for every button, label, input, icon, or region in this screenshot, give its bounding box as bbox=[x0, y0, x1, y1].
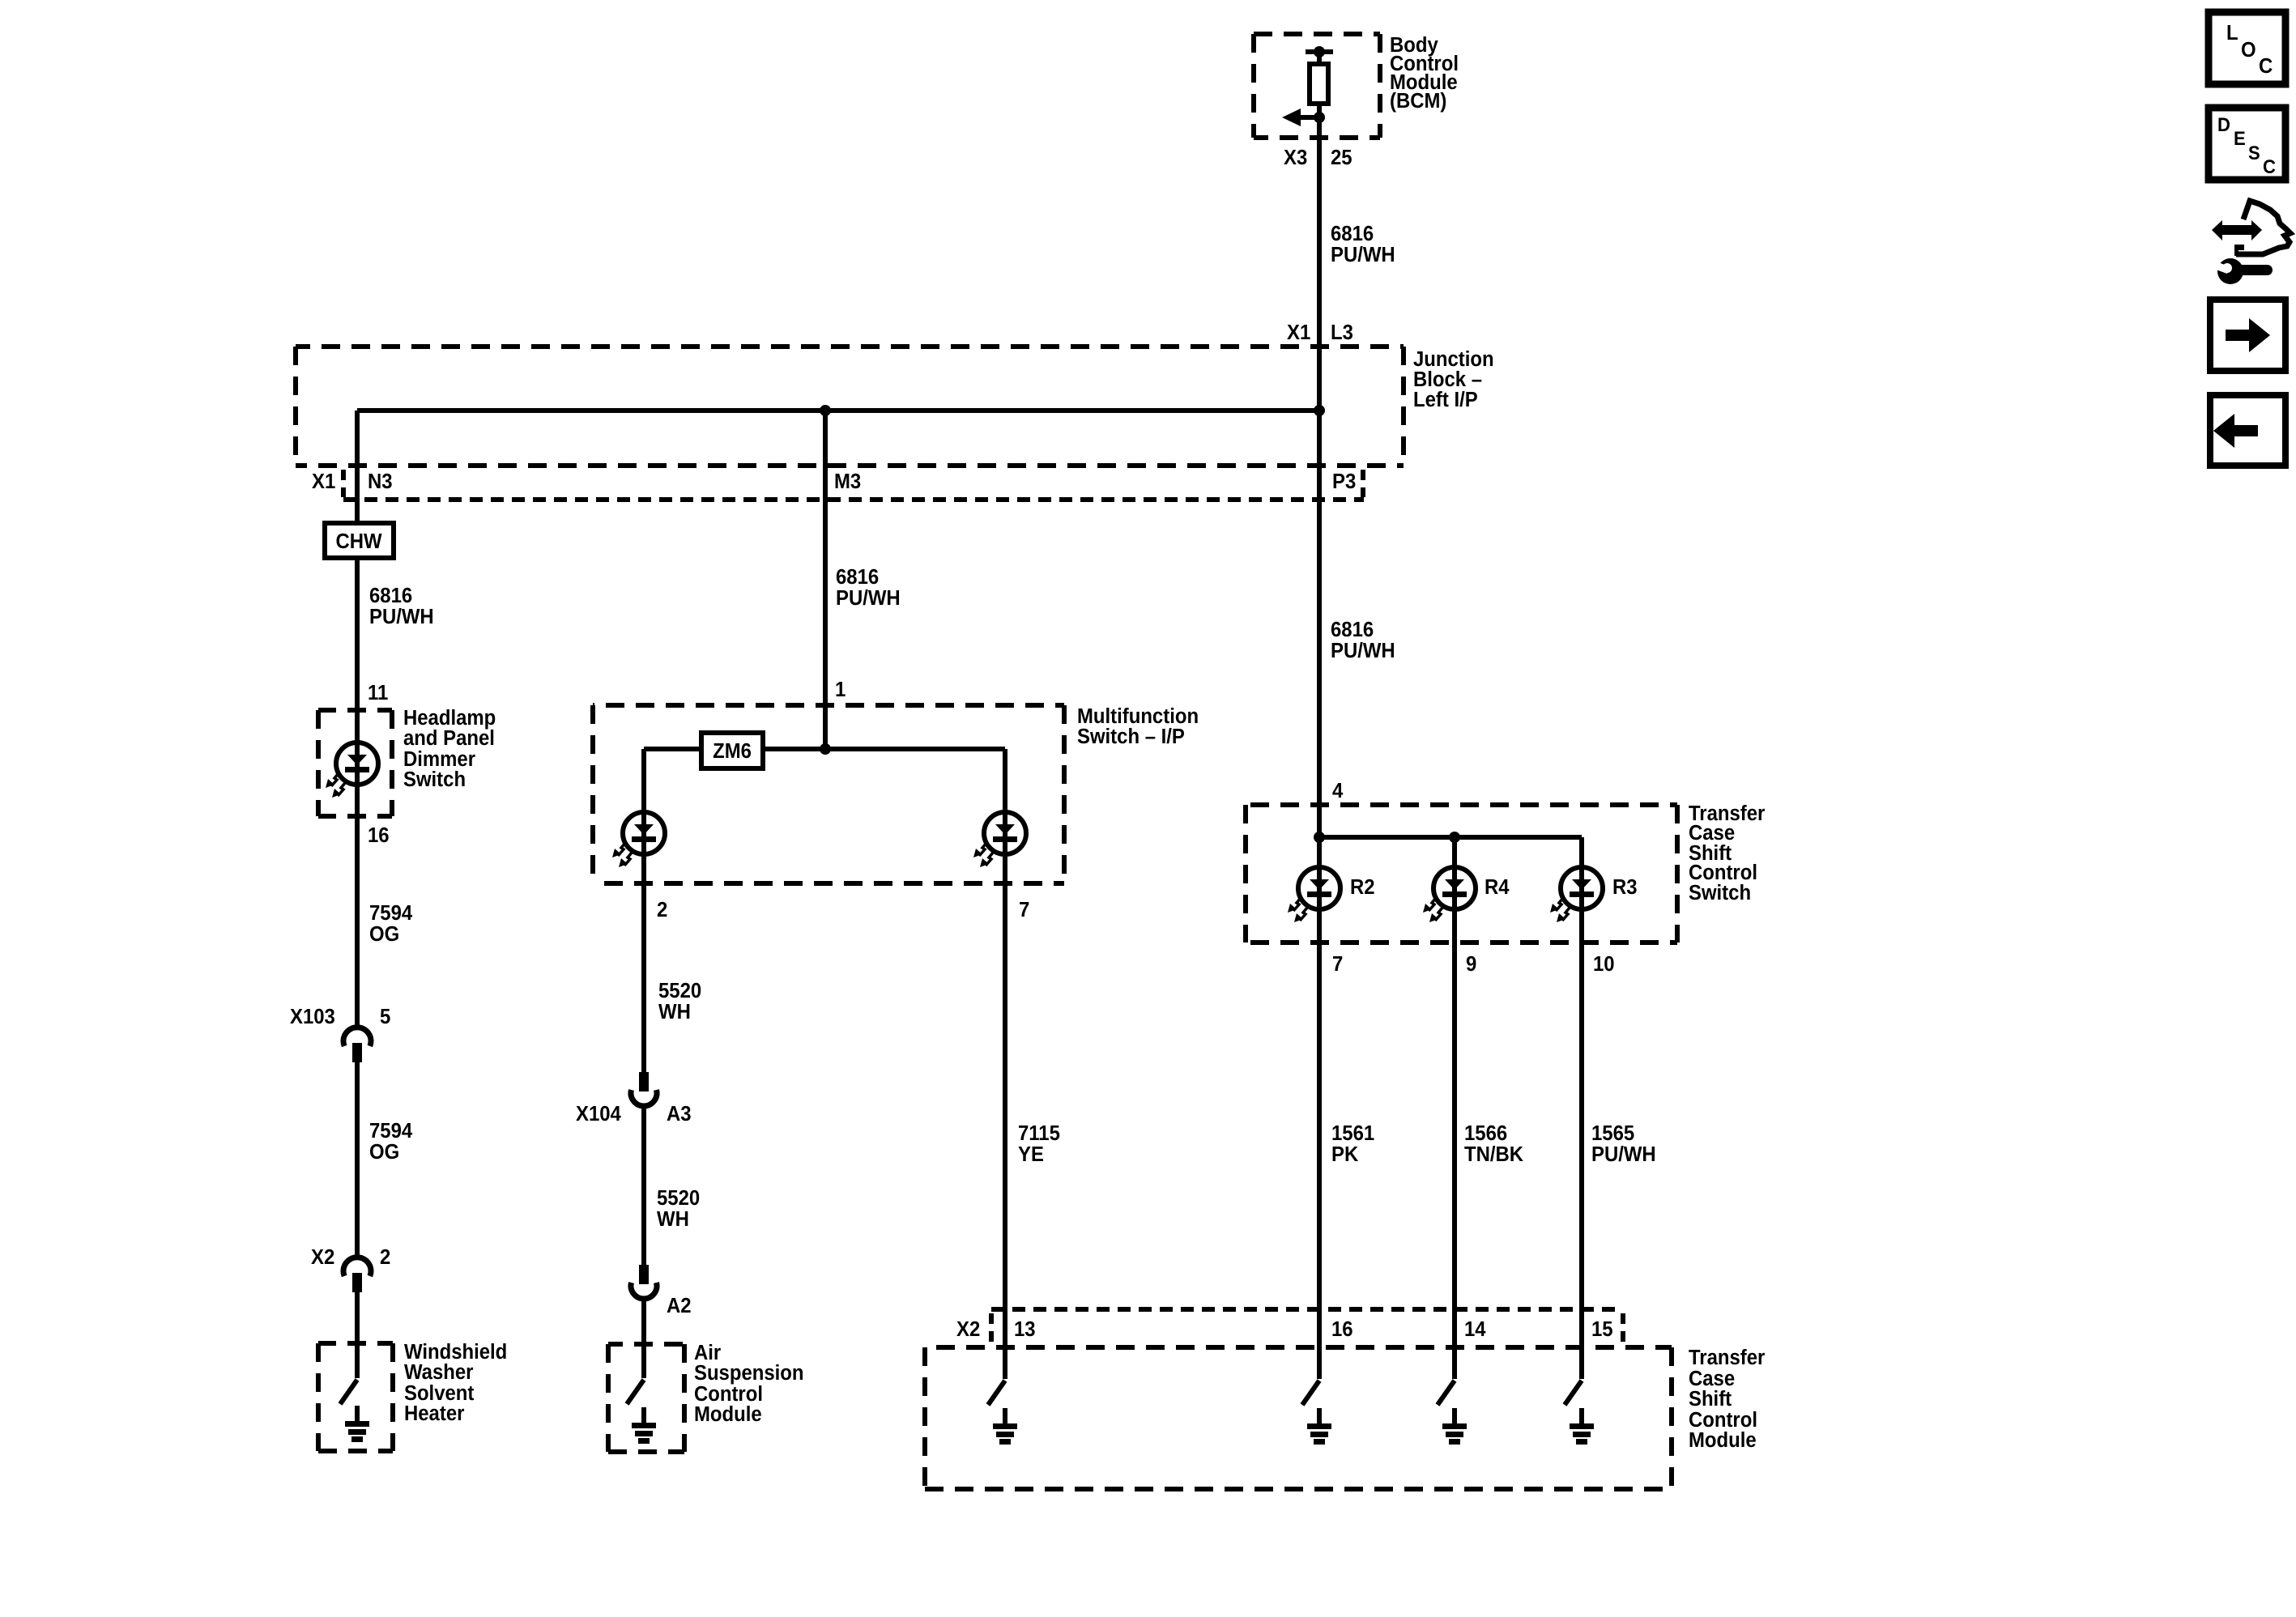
svg-text:PU/WH: PU/WH bbox=[1331, 639, 1395, 662]
svg-text:X1: X1 bbox=[1287, 321, 1310, 344]
svg-text:X3: X3 bbox=[1284, 146, 1307, 169]
Headlamp and Panel Dimmer Switch dashed box bbox=[318, 710, 392, 816]
wire label 6816 PU/WH (left) bbox=[369, 584, 434, 628]
svg-text:7594: 7594 bbox=[369, 901, 412, 925]
svg-text:OG: OG bbox=[369, 1140, 399, 1164]
svg-text:15: 15 bbox=[1591, 1317, 1613, 1341]
module pin14 switch blade bbox=[1438, 1381, 1455, 1405]
wire through dimmer switch bbox=[355, 710, 360, 816]
wire label 6816 PU/WH (right) bbox=[1331, 618, 1395, 662]
svg-text:R2: R2 bbox=[1350, 875, 1375, 899]
Junction Block name label bbox=[1413, 347, 1494, 411]
svg-text:Switch: Switch bbox=[1689, 881, 1751, 904]
wire: CHW to headlamp dimmer switch pin 11 (6816 PU/WH) bbox=[355, 558, 360, 710]
CHW option box bbox=[325, 523, 394, 558]
svg-text:11: 11 bbox=[368, 681, 388, 704]
Multifunction Switch name label bbox=[1077, 704, 1199, 748]
svg-text:S: S bbox=[2248, 142, 2260, 164]
svg-text:Transfer: Transfer bbox=[1689, 1346, 1766, 1369]
svg-text:Suspension: Suspension bbox=[694, 1361, 804, 1385]
Body Control Module (BCM) dashed box bbox=[1254, 34, 1380, 138]
ground (module pin 16) bbox=[1307, 1408, 1331, 1445]
junction dot R4 node bbox=[1449, 832, 1460, 843]
ZM6 option box bbox=[701, 733, 763, 768]
wire label 7594 OG (lower) bbox=[369, 1119, 412, 1164]
wire: multifunction pin 2 to X104 (5520 WH) bbox=[641, 883, 646, 1074]
wire: A2 to air suspension control module bbox=[641, 1300, 646, 1378]
Transfer Case Shift Control Switch dashed box bbox=[1246, 805, 1677, 943]
wire: X2 to windshield washer solvent heater bbox=[355, 1291, 360, 1378]
ground (module pin 14) bbox=[1442, 1408, 1467, 1445]
svg-text:L3: L3 bbox=[1331, 321, 1353, 344]
svg-text:5520: 5520 bbox=[657, 1186, 700, 1210]
multifunction internal bus wire bbox=[644, 749, 1005, 812]
connector X1 dotted line bbox=[343, 497, 1364, 502]
junction dot R2 node bbox=[1314, 832, 1325, 843]
air suspension switch blade bbox=[627, 1380, 644, 1404]
svg-text:WH: WH bbox=[658, 1000, 691, 1023]
svg-text:YE: YE bbox=[1018, 1143, 1044, 1166]
wire label 5520 WH (upper) bbox=[658, 979, 701, 1023]
svg-text:7: 7 bbox=[1019, 898, 1029, 921]
Air Suspension Control Module dashed box bbox=[608, 1344, 684, 1452]
icon: service/diagnostic (vehicle with arrow and wrench) bbox=[2212, 201, 2290, 284]
svg-text:2: 2 bbox=[657, 898, 667, 921]
wire: junction block P3 down to transfer case switch pin 4 (6816 PU/WH) bbox=[1317, 411, 1322, 837]
svg-text:PU/WH: PU/WH bbox=[836, 586, 901, 610]
junction block internal bus wire bbox=[357, 408, 1319, 413]
BCM output arrow (to left) bbox=[1282, 109, 1319, 126]
svg-text:1566: 1566 bbox=[1464, 1121, 1507, 1145]
svg-text:(BCM): (BCM) bbox=[1390, 89, 1446, 113]
svg-text:X2: X2 bbox=[311, 1245, 334, 1269]
svg-text:Switch – I/P: Switch – I/P bbox=[1077, 725, 1185, 748]
svg-text:10: 10 bbox=[1593, 952, 1615, 976]
svg-text:O: O bbox=[2241, 38, 2256, 62]
indicator LED lamp R4 bbox=[1423, 867, 1476, 922]
svg-text:X103: X103 bbox=[290, 1005, 335, 1028]
ground (windshield washer heater) bbox=[345, 1406, 369, 1442]
indicator LED lamp R3 bbox=[1550, 867, 1603, 922]
connector X2 dotted line (module) bbox=[991, 1307, 1623, 1312]
indicator LED lamp R2 bbox=[1288, 867, 1340, 922]
svg-text:6816: 6816 bbox=[1331, 618, 1374, 641]
Transfer Case Shift Control Switch name label bbox=[1689, 802, 1766, 904]
svg-text:PU/WH: PU/WH bbox=[369, 605, 434, 628]
BCM internal node bar with junction dot bbox=[1306, 46, 1333, 57]
Air Suspension Control Module name label bbox=[694, 1341, 804, 1426]
icon: previous page arrow box bbox=[2210, 395, 2285, 466]
svg-text:ZM6: ZM6 bbox=[713, 739, 752, 763]
wire through R3 lamp bbox=[1579, 837, 1584, 943]
svg-text:R4: R4 bbox=[1485, 875, 1510, 899]
Windshield Washer Solvent Heater name label bbox=[404, 1340, 507, 1425]
svg-text:C: C bbox=[2263, 155, 2276, 177]
svg-text:X104: X104 bbox=[576, 1102, 621, 1126]
wire: junction block M3 down to multifunction switch pin 1 (6816 PU/WH) bbox=[823, 411, 828, 749]
svg-text:9: 9 bbox=[1466, 952, 1476, 976]
indicator LED lamp (multifunction right) bbox=[973, 812, 1026, 867]
svg-text:PK: PK bbox=[1331, 1143, 1358, 1166]
heater switch blade bbox=[340, 1380, 357, 1404]
connector X1 left boundary dashes bbox=[341, 470, 346, 497]
svg-text:7594: 7594 bbox=[369, 1119, 412, 1143]
wire: junction block N3 down to CHW bbox=[355, 411, 360, 523]
svg-text:16: 16 bbox=[1331, 1317, 1353, 1341]
wire label 5520 WH (lower) bbox=[657, 1186, 700, 1231]
wire: X103 to X2 (7594 OG) bbox=[355, 1061, 360, 1257]
wire: X104 to A2 (5520 WH) bbox=[641, 1107, 646, 1266]
indicator LED lamp (dimmer switch illumination) bbox=[326, 743, 378, 798]
svg-text:Washer: Washer bbox=[404, 1360, 474, 1384]
svg-text:OG: OG bbox=[369, 922, 399, 946]
junction dot P3 branch bbox=[1314, 405, 1325, 416]
Transfer Case Shift Control Module dashed box bbox=[925, 1347, 1672, 1489]
in-line connector X104 pin A3 bbox=[631, 1072, 657, 1106]
svg-text:Module: Module bbox=[694, 1402, 762, 1426]
icon: LOC box bbox=[2209, 12, 2285, 84]
svg-text:A2: A2 bbox=[667, 1294, 692, 1317]
svg-text:5520: 5520 bbox=[658, 979, 701, 1002]
wire: multifunction pin 7 to module pin 13 (7115 YE) bbox=[1003, 883, 1007, 1379]
wire through left lamp bbox=[641, 812, 646, 883]
svg-text:X2: X2 bbox=[956, 1317, 980, 1341]
svg-text:CHW: CHW bbox=[335, 530, 382, 553]
pin label X3 25 bbox=[1284, 146, 1352, 169]
svg-text:WH: WH bbox=[657, 1207, 689, 1231]
svg-text:PU/WH: PU/WH bbox=[1591, 1143, 1656, 1166]
svg-text:1: 1 bbox=[835, 678, 846, 701]
svg-text:6816: 6816 bbox=[836, 565, 879, 589]
in-line connector pin A2 bbox=[631, 1265, 657, 1299]
svg-text:L: L bbox=[2226, 21, 2238, 45]
ground (module pin 13) bbox=[993, 1408, 1017, 1445]
resistor (BCM high-side driver) bbox=[1310, 52, 1328, 117]
wire label 1566 TN/BK bbox=[1464, 1121, 1523, 1166]
connector label X104 A3 bbox=[576, 1102, 692, 1126]
ground (air suspension control module) bbox=[632, 1407, 656, 1444]
svg-text:Left I/P: Left I/P bbox=[1413, 388, 1478, 411]
connector X2 left boundary dashes bbox=[989, 1313, 994, 1343]
svg-text:E: E bbox=[2234, 127, 2246, 149]
svg-text:Switch: Switch bbox=[403, 768, 466, 791]
in-line connector X103 pin 5 bbox=[343, 1028, 371, 1062]
wire label 7115 YE bbox=[1018, 1121, 1060, 1166]
transfer case switch internal bus wire bbox=[1319, 835, 1582, 840]
svg-text:M3: M3 bbox=[834, 470, 861, 493]
svg-text:25: 25 bbox=[1331, 146, 1352, 169]
svg-text:2: 2 bbox=[380, 1245, 390, 1269]
svg-text:6816: 6816 bbox=[1331, 222, 1374, 245]
wire label 6816 PU/WH (middle) bbox=[836, 565, 901, 610]
svg-text:1561: 1561 bbox=[1331, 1121, 1374, 1145]
wire through right lamp bbox=[1003, 812, 1007, 883]
wire through R4 lamp bbox=[1452, 837, 1457, 943]
svg-text:Shift: Shift bbox=[1689, 1387, 1732, 1411]
wire: BCM pin 25 to junction block L3 (6816 PU/WH) bbox=[1317, 117, 1322, 411]
wire through R2 lamp bbox=[1317, 837, 1322, 943]
svg-text:7115: 7115 bbox=[1018, 1121, 1060, 1145]
module pin16 switch blade bbox=[1302, 1381, 1319, 1405]
svg-text:and Panel: and Panel bbox=[403, 726, 495, 750]
svg-text:Heater: Heater bbox=[404, 1402, 465, 1425]
Windshield Washer Solvent Heater dashed box bbox=[318, 1343, 393, 1451]
connector X2 right boundary dashes bbox=[1621, 1313, 1625, 1343]
icon: next page arrow box bbox=[2210, 300, 2285, 371]
module pin15 switch blade bbox=[1565, 1381, 1582, 1405]
svg-text:5: 5 bbox=[380, 1005, 390, 1028]
wire label 1561 PK bbox=[1331, 1121, 1374, 1166]
connector label X103 5 bbox=[290, 1005, 390, 1028]
ground (module pin 15) bbox=[1570, 1408, 1594, 1445]
junction dot M3 branch bbox=[820, 405, 831, 416]
Headlamp and Panel Dimmer Switch name label bbox=[403, 706, 496, 791]
svg-text:Module: Module bbox=[1689, 1428, 1757, 1452]
svg-text:16: 16 bbox=[368, 823, 390, 847]
icon: DESC box bbox=[2209, 108, 2285, 180]
wire: switch pin 9 to module pin 14 (1566 TN/BK) bbox=[1452, 943, 1457, 1379]
indicator LED lamp (multifunction left) bbox=[612, 812, 665, 867]
junction dot BCM output node bbox=[1314, 112, 1325, 123]
svg-text:C: C bbox=[2259, 54, 2273, 78]
in-line connector X2 pin 2 bbox=[343, 1257, 371, 1292]
svg-text:6816: 6816 bbox=[369, 584, 412, 607]
svg-text:1565: 1565 bbox=[1591, 1121, 1634, 1145]
svg-text:TN/BK: TN/BK bbox=[1464, 1143, 1523, 1166]
svg-text:N3: N3 bbox=[368, 470, 393, 493]
wire: dimmer pin 16 to X103 (7594 OG) bbox=[355, 816, 360, 1028]
connector X1 right boundary dashes bbox=[1361, 470, 1365, 497]
wire label 7594 OG (upper) bbox=[369, 901, 412, 946]
svg-text:D: D bbox=[2217, 113, 2230, 135]
svg-text:A3: A3 bbox=[667, 1102, 692, 1126]
svg-text:PU/WH: PU/WH bbox=[1331, 243, 1395, 266]
svg-text:4: 4 bbox=[1332, 779, 1343, 802]
svg-text:R3: R3 bbox=[1612, 875, 1638, 899]
module pin13 switch blade bbox=[988, 1381, 1005, 1405]
Transfer Case Shift Control Module name label bbox=[1689, 1346, 1766, 1452]
wire: switch pin 10 to module pin 15 (1565 PU/WH) bbox=[1579, 943, 1584, 1379]
wire label 1565 PU/WH bbox=[1591, 1121, 1656, 1166]
svg-text:7: 7 bbox=[1332, 952, 1343, 976]
svg-text:13: 13 bbox=[1014, 1317, 1036, 1341]
junction dot multifunction pin1 node bbox=[820, 743, 831, 755]
wire: switch pin 7 to module pin 16 (1561 PK) bbox=[1317, 943, 1322, 1379]
svg-text:14: 14 bbox=[1464, 1317, 1486, 1341]
Multifunction Switch - I/P dashed box bbox=[593, 705, 1064, 883]
svg-text:P3: P3 bbox=[1332, 470, 1356, 493]
svg-text:X1: X1 bbox=[312, 470, 335, 493]
wire label 6816 PU/WH (top) bbox=[1331, 222, 1395, 266]
Junction Block - Left I/P dashed box bbox=[296, 347, 1404, 466]
connector label X2 2 bbox=[311, 1245, 390, 1269]
pin label X1 L3 bbox=[1287, 321, 1353, 344]
BCM name label bbox=[1390, 33, 1459, 113]
